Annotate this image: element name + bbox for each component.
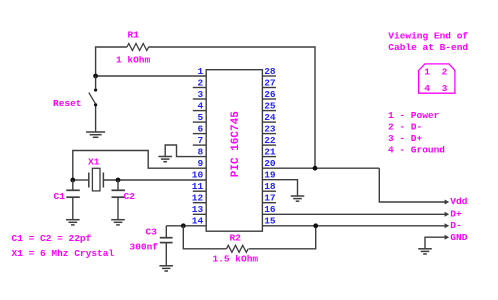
svg-text:C2: C2 [124, 191, 136, 202]
svg-text:8: 8 [197, 146, 203, 157]
svg-text:3: 3 [442, 83, 448, 94]
wire C3 to ground [165, 243, 167, 266]
svg-text:28: 28 [264, 66, 276, 77]
pin 28 [262, 66, 276, 77]
pin 6 [193, 123, 206, 134]
wire pin 1 to reset node [96, 75, 207, 77]
pin 11 [192, 181, 206, 192]
label Vdd [450, 196, 467, 207]
USB pin number 2 [442, 67, 448, 78]
IC U1 label PIC 16C745 [230, 111, 242, 177]
pin 12 [192, 193, 206, 204]
capacitor C3 [160, 238, 173, 243]
label GND [450, 232, 467, 243]
label C3 [146, 227, 158, 238]
pin 17 [262, 193, 276, 204]
wire crystal right plate to pin 10 [104, 179, 207, 181]
crystal X1 [89, 168, 104, 191]
label R2 [230, 232, 242, 243]
arrow D+ [445, 212, 450, 217]
svg-text:27: 27 [264, 77, 276, 88]
svg-text:20: 20 [264, 158, 276, 169]
pin 18 [262, 181, 276, 192]
svg-text:9: 9 [197, 158, 203, 169]
label C2 [124, 191, 136, 202]
svg-text:3: 3 [197, 89, 203, 100]
label R1 [128, 29, 140, 40]
pin 9 [197, 158, 203, 169]
pin 19 [264, 170, 276, 181]
svg-text:11: 11 [192, 181, 204, 192]
svg-text:5: 5 [197, 112, 203, 123]
svg-text:1 kOhm: 1 kOhm [116, 55, 151, 66]
wire R2 right leg [249, 226, 316, 249]
label D+ [450, 208, 462, 219]
USB pin number 1 [424, 67, 430, 78]
junction node B [116, 178, 121, 183]
pin 14 [192, 216, 204, 227]
svg-text:10: 10 [192, 170, 204, 181]
pin 16 [264, 204, 276, 215]
svg-text:D-: D- [450, 220, 461, 231]
pin 5 [193, 112, 206, 123]
wire R2 left leg [183, 226, 226, 249]
wire C2 to ground [117, 198, 119, 220]
svg-text:21: 21 [264, 146, 276, 157]
wire R1 top right segment to Vdd rail [149, 47, 316, 168]
pin 24 [262, 112, 276, 123]
note 1 - Power [388, 110, 440, 121]
pin 20 [264, 158, 276, 169]
pin 7 [193, 135, 206, 146]
wire reset node to switch [95, 76, 97, 88]
pin 25 [262, 100, 276, 111]
svg-text:22: 22 [264, 135, 276, 146]
svg-text:4: 4 [424, 83, 430, 94]
junction reset node [93, 74, 98, 79]
note X1 = 6 Mhz Crystal [12, 248, 115, 259]
note C1 = C2 = 22pf [12, 233, 92, 244]
ground (C1) [66, 220, 80, 225]
capacitor C2 [112, 190, 126, 197]
wire pin 19 to ground [262, 180, 297, 196]
pin 1 [197, 66, 203, 77]
note 4 - Ground [388, 145, 445, 156]
svg-text:2: 2 [197, 77, 203, 88]
wire pin 8 to ground [165, 145, 206, 157]
ground (GND net) [418, 249, 432, 254]
svg-text:6: 6 [197, 123, 203, 134]
resistor R2 [227, 245, 249, 252]
value 300nf [130, 242, 159, 253]
svg-text:24: 24 [264, 112, 276, 123]
svg-text:2 - D-: 2 - D- [388, 121, 422, 132]
junction node A [70, 178, 75, 183]
svg-text:18: 18 [264, 181, 276, 192]
pin 3 [193, 89, 206, 100]
junction D- / R2 [313, 223, 318, 228]
pin 21 [262, 146, 276, 157]
label D- [450, 220, 461, 231]
wire node B to C2 [117, 180, 119, 190]
pin 27 [262, 77, 276, 88]
svg-text:16: 16 [264, 204, 276, 215]
svg-text:X1 = 6 Mhz Crystal: X1 = 6 Mhz Crystal [12, 248, 115, 259]
USB pin number 4 [424, 83, 430, 94]
svg-text:D+: D+ [450, 208, 462, 219]
svg-text:2: 2 [442, 67, 448, 78]
junction Vdd rail / pin 20 [313, 166, 318, 171]
USB B connector outline (viewing end) [419, 64, 455, 93]
svg-text:C1: C1 [54, 191, 66, 202]
note 3 - D+ [388, 133, 423, 144]
junction pin 14 / R2 node [181, 223, 186, 228]
note Viewing End of [388, 31, 468, 42]
wire node A to C1 [72, 180, 74, 190]
svg-text:13: 13 [192, 204, 204, 215]
pin 13 [192, 204, 206, 215]
svg-text:15: 15 [264, 216, 276, 227]
value 1 kOhm [116, 55, 151, 66]
USB pin number 3 [442, 83, 448, 94]
svg-text:R1: R1 [128, 29, 140, 40]
wire switch to ground [95, 107, 97, 133]
svg-text:C3: C3 [146, 227, 158, 238]
value 1.5 kOhm [213, 254, 259, 265]
wire R1 top left segment [96, 47, 127, 76]
pin 10 [192, 170, 204, 181]
ground (pin 8) [158, 157, 172, 162]
label X1 [88, 156, 100, 167]
wire C3 top lead [165, 226, 167, 237]
IC U1 body (PIC 16C745) [206, 70, 262, 232]
label C1 [54, 191, 66, 202]
svg-text:1 - Power: 1 - Power [388, 110, 440, 121]
wire pin 15 to D- [262, 225, 445, 227]
arrow GND [445, 235, 450, 240]
svg-text:23: 23 [264, 123, 276, 134]
pin 15 [264, 216, 276, 227]
wire Vdd corner down and right [379, 168, 445, 202]
svg-text:1: 1 [424, 67, 430, 78]
svg-text:7: 7 [197, 135, 203, 146]
arrow D- [445, 223, 450, 228]
svg-text:Viewing End of: Viewing End of [388, 31, 468, 42]
capacitor C1 [66, 190, 80, 197]
pin 22 [262, 135, 276, 146]
ground (reset switch) [86, 132, 105, 137]
ground (C3) [159, 266, 173, 271]
svg-text:17: 17 [264, 193, 276, 204]
wire pin 16 to D+ [262, 213, 445, 215]
svg-text:Vdd: Vdd [450, 196, 467, 207]
svg-text:PIC 16C745: PIC 16C745 [230, 111, 242, 177]
wire pin 14 to C3 [166, 225, 206, 227]
svg-text:1: 1 [197, 66, 203, 77]
wire pin 20 to Vdd corner [262, 167, 379, 169]
wire crystal node A up and over to pin 9 [73, 151, 206, 181]
svg-text:C1 = C2 = 22pf: C1 = C2 = 22pf [12, 233, 92, 244]
pin 2 [193, 77, 206, 88]
pin 4 [193, 100, 206, 111]
svg-text:1.5 kOhm: 1.5 kOhm [213, 254, 259, 265]
resistor R1 [127, 44, 149, 51]
svg-text:Cable at B-end: Cable at B-end [388, 42, 468, 53]
wire node A to crystal left plate [73, 179, 89, 181]
arrow Vdd [445, 200, 450, 205]
ground (pin 19) [291, 196, 305, 201]
svg-text:3 - D+: 3 - D+ [388, 133, 423, 144]
svg-text:GND: GND [450, 232, 467, 243]
svg-text:19: 19 [264, 170, 276, 181]
svg-text:25: 25 [264, 100, 276, 111]
pin 26 [262, 89, 276, 100]
note 2 - D- [388, 121, 422, 132]
label Reset [53, 98, 82, 109]
svg-text:26: 26 [264, 89, 276, 100]
switch S1 (Reset) [89, 88, 97, 106]
svg-text:Reset: Reset [53, 98, 82, 109]
ground (C2) [111, 220, 125, 225]
svg-text:300nf: 300nf [130, 242, 159, 253]
wire GND lead [425, 237, 446, 248]
pin 23 [262, 123, 276, 134]
note Cable at B-end [388, 42, 468, 53]
svg-text:R2: R2 [230, 232, 242, 243]
svg-text:4: 4 [197, 100, 203, 111]
pin 8 [197, 146, 203, 157]
svg-text:14: 14 [192, 216, 204, 227]
svg-text:4 - Ground: 4 - Ground [388, 145, 445, 156]
svg-text:12: 12 [192, 193, 204, 204]
svg-text:X1: X1 [88, 156, 100, 167]
wire C1 to ground [72, 198, 74, 220]
